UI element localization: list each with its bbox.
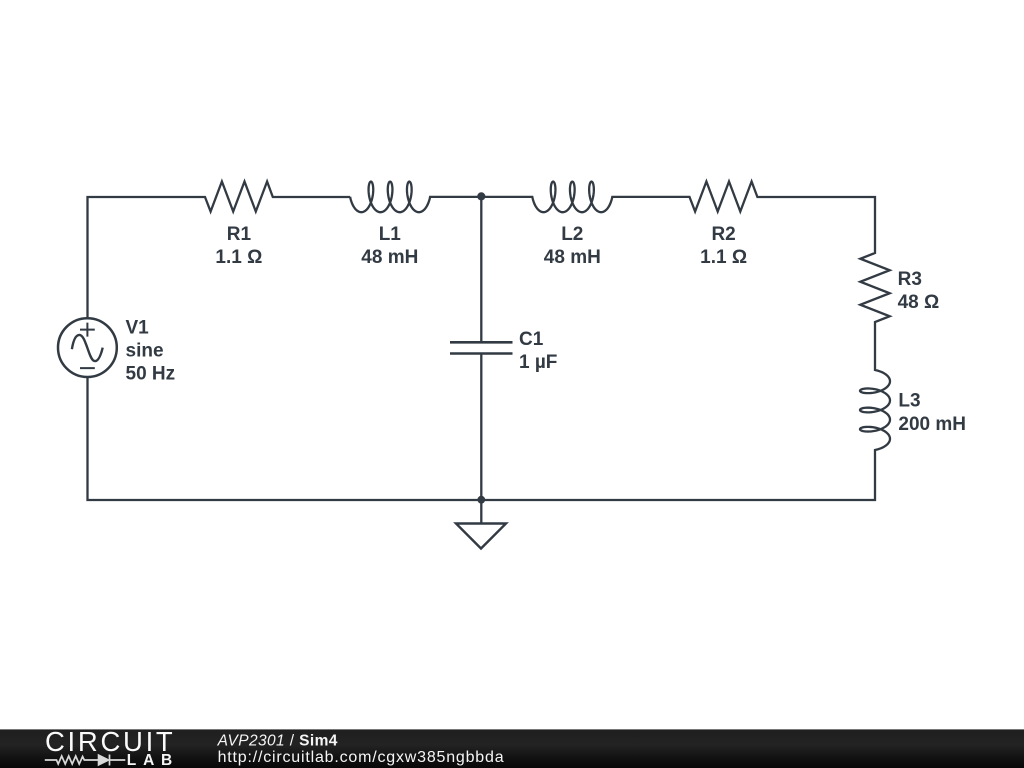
svg-text:1.1 Ω: 1.1 Ω — [700, 247, 747, 268]
svg-text:C1: C1 — [519, 329, 544, 350]
svg-text:L1: L1 — [379, 224, 402, 245]
svg-text:R1: R1 — [227, 224, 252, 245]
svg-text:48 Ω: 48 Ω — [898, 292, 940, 313]
svg-text:LAB: LAB — [127, 752, 179, 768]
svg-text:V1: V1 — [126, 318, 150, 339]
svg-text:200 mH: 200 mH — [898, 414, 966, 435]
svg-text:50 Hz: 50 Hz — [126, 363, 176, 384]
svg-text:sine: sine — [126, 341, 164, 362]
svg-text:AVP2301 / Sim4: AVP2301 / Sim4 — [217, 732, 338, 749]
svg-text:L3: L3 — [898, 391, 920, 412]
svg-text:48 mH: 48 mH — [361, 247, 418, 268]
svg-text:1.1 Ω: 1.1 Ω — [215, 247, 262, 268]
svg-text:http://circuitlab.com/cgxw385n: http://circuitlab.com/cgxw385ngbbda — [218, 749, 505, 766]
svg-text:R3: R3 — [898, 269, 922, 290]
svg-text:L2: L2 — [561, 224, 583, 245]
svg-text:1 µF: 1 µF — [519, 352, 557, 373]
svg-text:R2: R2 — [711, 224, 735, 245]
svg-text:48 mH: 48 mH — [544, 247, 601, 268]
